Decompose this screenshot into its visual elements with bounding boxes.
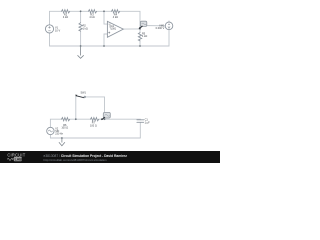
wire node A junction down to R2: [80, 11, 82, 22]
voltmeter VM1 circle: [165, 22, 173, 30]
op-amp +/- signs: [108, 24, 110, 33]
wire node B drop to op-amp inverting input: [104, 11, 107, 24]
svg-text:4 kΩ: 4 kΩ: [89, 16, 94, 19]
svg-text:10 V: 10 V: [55, 29, 60, 32]
op-amp OA1 triangle: [107, 21, 123, 37]
rail dot op-amp input: [103, 45, 105, 47]
wire op-amp non-inverting input down to rail: [104, 34, 107, 46]
branch node below switch: [75, 118, 77, 120]
wire switch to descent: [85, 97, 105, 119]
ground bottom circuit: [59, 138, 65, 146]
svg-text:230 Hz: 230 Hz: [55, 132, 63, 135]
output node dot: [139, 28, 141, 30]
junction dots bottom circuit: [75, 118, 106, 120]
svg-text:100 Ω: 100 Ω: [61, 127, 68, 130]
capacitor C1 plates: [137, 120, 144, 123]
resistor R1: [62, 10, 70, 13]
svg-text:4 kΩ: 4 kΩ: [63, 16, 68, 19]
wire top rail left segment: [50, 10, 62, 12]
junction node dots top circuit: [80, 10, 141, 46]
switch SW1: [75, 95, 85, 98]
svg-text:1 µF: 1 µF: [145, 121, 151, 124]
probe box at op-amp output: [139, 21, 147, 29]
svg-text:SW1: SW1: [80, 91, 86, 94]
svg-text:http://circuitlab.com/c/e38130: http://circuitlab.com/c/e3813087/circuit…: [44, 158, 108, 162]
node right of R7: [104, 118, 106, 120]
svg-text:100 Ω: 100 Ω: [90, 124, 97, 127]
svg-text:LAB: LAB: [15, 157, 23, 161]
wire capacitor C1 stubs: [139, 119, 141, 138]
wire V2 bottom stub: [49, 135, 51, 138]
V2 sine mark: [48, 130, 52, 132]
rail dot below R5: [139, 45, 141, 47]
wire R6 to branch node: [70, 118, 91, 120]
resistor R4 feedback: [112, 10, 120, 13]
voltage source V2 circle: [47, 127, 54, 134]
wire bottom rail: [50, 137, 140, 139]
wire output node to voltmeter: [140, 25, 165, 27]
wire voltmeter down to rail: [168, 30, 170, 47]
rail dot below R2: [80, 45, 82, 47]
ground top circuit: [78, 46, 84, 58]
wire R5 stubs: [139, 29, 141, 46]
node B dot: [103, 10, 105, 12]
resistor R3: [88, 10, 96, 13]
node A dot: [80, 10, 82, 12]
wire R1 to node A: [70, 10, 89, 12]
V1 plus minus marks: [48, 26, 50, 31]
wire R3 to node B: [97, 10, 112, 12]
wire R2 bottom to rail: [80, 31, 82, 46]
svg-text:4 kΩ: 4 kΩ: [113, 16, 118, 19]
resistor R7: [91, 118, 99, 121]
wire feedback to output corner: [120, 11, 140, 29]
wire bottom rail: [50, 45, 170, 47]
resistor R5 output vertical: [138, 33, 141, 41]
wire op-amp output: [123, 28, 140, 30]
resistor R6: [62, 118, 70, 121]
svg-text:TL081: TL081: [110, 29, 117, 31]
svg-text:0.000 V: 0.000 V: [156, 27, 165, 30]
voltage source V1 circle: [45, 25, 53, 33]
junction dot at bottom ground: [61, 137, 63, 139]
resistor R2 vertical: [79, 23, 82, 31]
probe box bottom: [101, 112, 110, 120]
svg-text:1 kΩ: 1 kΩ: [142, 35, 147, 38]
wire R7 to capacitor: [99, 118, 141, 120]
wire left rail / V1 stubs: [49, 11, 51, 46]
wire branch up to switch: [75, 97, 77, 120]
svg-text:1 kΩ: 1 kΩ: [83, 27, 88, 30]
wire V2 top to R6: [50, 119, 61, 127]
voltmeter V mark: [168, 21, 170, 29]
